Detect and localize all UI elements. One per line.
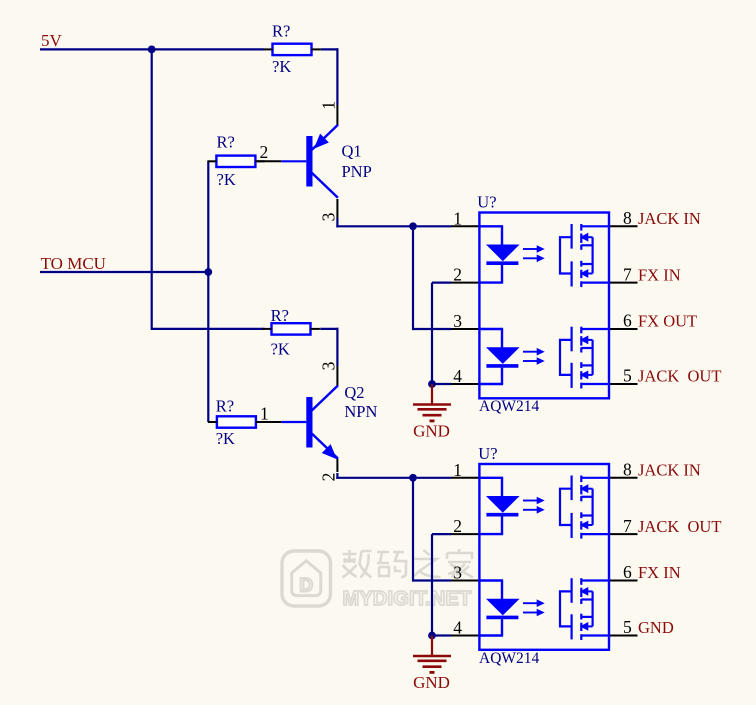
svg-text:FX IN: FX IN bbox=[638, 265, 681, 284]
svg-text:2: 2 bbox=[260, 142, 269, 162]
svg-text:8: 8 bbox=[623, 208, 632, 228]
svg-text:3: 3 bbox=[318, 212, 338, 221]
svg-text:NPN: NPN bbox=[344, 402, 377, 421]
svg-text:FX OUT: FX OUT bbox=[638, 312, 697, 331]
svg-text:2: 2 bbox=[453, 265, 462, 285]
svg-text:R?: R? bbox=[216, 396, 234, 415]
svg-text:FX IN: FX IN bbox=[638, 563, 681, 582]
svg-text:6: 6 bbox=[623, 311, 632, 331]
svg-text:2: 2 bbox=[453, 516, 462, 536]
svg-text:?K: ?K bbox=[216, 429, 235, 448]
svg-text:3: 3 bbox=[453, 563, 462, 583]
svg-text:JACK IN: JACK IN bbox=[638, 461, 701, 480]
svg-text:R?: R? bbox=[217, 133, 235, 152]
svg-text:3: 3 bbox=[318, 361, 338, 370]
svg-text:R?: R? bbox=[271, 306, 289, 325]
svg-text:2: 2 bbox=[318, 473, 338, 482]
svg-text:GND: GND bbox=[413, 673, 450, 692]
svg-text:3: 3 bbox=[453, 311, 462, 331]
svg-text:1: 1 bbox=[260, 404, 269, 424]
svg-text:Q1: Q1 bbox=[342, 142, 362, 161]
svg-text:Q2: Q2 bbox=[344, 383, 364, 402]
svg-text:8: 8 bbox=[623, 460, 632, 480]
svg-text:U?: U? bbox=[477, 193, 496, 212]
svg-text:JACK OUT: JACK OUT bbox=[638, 367, 721, 386]
svg-text:1: 1 bbox=[318, 101, 338, 110]
svg-text:R?: R? bbox=[272, 22, 290, 41]
svg-text:?K: ?K bbox=[217, 170, 236, 189]
svg-text:4: 4 bbox=[453, 618, 462, 638]
svg-text:5V: 5V bbox=[41, 31, 63, 50]
svg-text:5: 5 bbox=[623, 617, 632, 637]
svg-text:TO MCU: TO MCU bbox=[41, 254, 106, 273]
svg-text:1: 1 bbox=[453, 460, 462, 480]
svg-text:JACK IN: JACK IN bbox=[638, 209, 701, 228]
svg-text:PNP: PNP bbox=[342, 162, 372, 181]
svg-text:?K: ?K bbox=[271, 340, 290, 359]
svg-text:4: 4 bbox=[453, 366, 462, 386]
svg-text:AQW214: AQW214 bbox=[479, 650, 540, 667]
svg-text:1: 1 bbox=[453, 208, 462, 228]
svg-text:AQW214: AQW214 bbox=[479, 398, 540, 415]
svg-text:U?: U? bbox=[478, 444, 497, 463]
svg-text:MYDIGIT.NET: MYDIGIT.NET bbox=[343, 588, 472, 610]
svg-text:5: 5 bbox=[623, 366, 632, 386]
svg-text:GND: GND bbox=[638, 618, 674, 637]
svg-text:GND: GND bbox=[413, 422, 450, 441]
svg-text:D: D bbox=[299, 576, 313, 597]
svg-text:JACK OUT: JACK OUT bbox=[638, 517, 721, 536]
svg-text:?K: ?K bbox=[272, 57, 291, 76]
svg-text:7: 7 bbox=[623, 264, 632, 284]
svg-text:6: 6 bbox=[623, 562, 632, 582]
svg-text:7: 7 bbox=[623, 516, 632, 536]
